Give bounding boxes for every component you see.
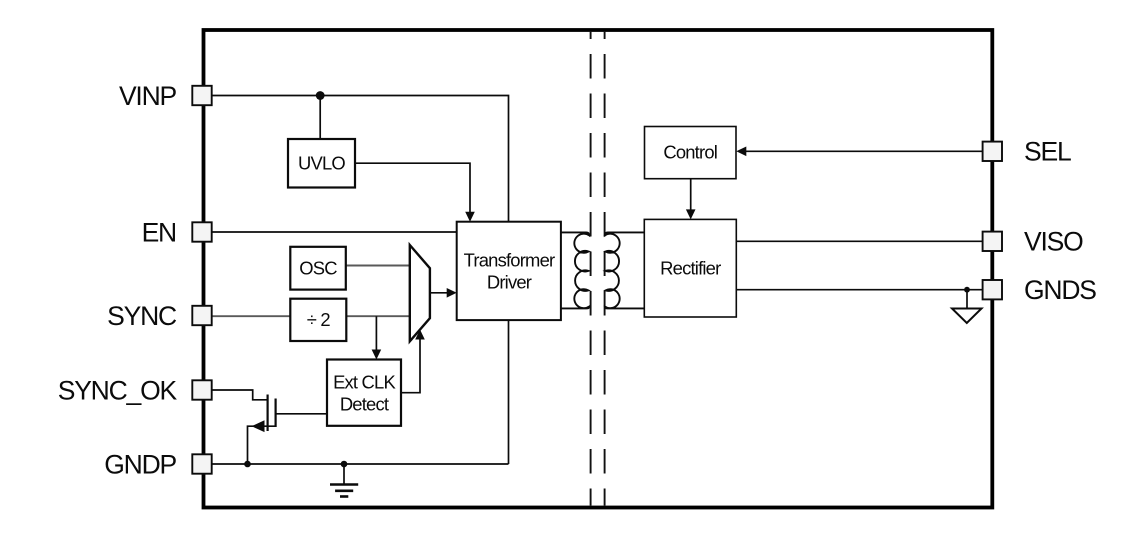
svg-text:SEL: SEL [1024, 137, 1071, 167]
svg-text:Control: Control [663, 141, 717, 162]
svg-text:UVLO: UVLO [298, 153, 345, 174]
svg-text:GNDS: GNDS [1024, 275, 1096, 305]
svg-text:EN: EN [142, 217, 176, 247]
svg-text:Transformer: Transformer [464, 249, 555, 270]
svg-text:SYNC_OK: SYNC_OK [58, 375, 178, 405]
svg-text:Ext CLK: Ext CLK [333, 371, 396, 392]
svg-text:VINP: VINP [119, 81, 177, 111]
svg-text:SYNC: SYNC [107, 301, 177, 331]
svg-text:÷ 2: ÷ 2 [307, 309, 331, 330]
svg-text:OSC: OSC [299, 257, 337, 278]
svg-text:Driver: Driver [487, 272, 532, 293]
svg-text:Detect: Detect [340, 393, 389, 414]
svg-text:Rectifier: Rectifier [660, 258, 721, 279]
svg-text:VISO: VISO [1024, 227, 1083, 257]
svg-text:GNDP: GNDP [104, 449, 176, 479]
